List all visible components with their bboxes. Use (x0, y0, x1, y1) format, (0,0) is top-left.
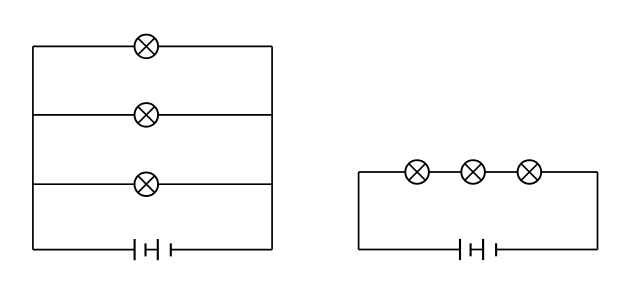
wire right vertical (series circuit) (597, 172, 599, 250)
wire bottom right segment from battery (series circuit) (496, 249, 597, 251)
wire bottom right segment from battery (parallel circuit) (171, 249, 272, 251)
lamp L4 (series circuit, left) (405, 160, 429, 184)
wire top edge (series circuit) (359, 171, 598, 173)
battery B1 (two cells, parallel circuit) (135, 239, 171, 260)
wire lower branch (parallel circuit) (33, 183, 272, 185)
wire left vertical (series circuit) (358, 172, 360, 250)
wire between battery cells (parallel circuit) (146, 249, 158, 251)
wire top branch (parallel circuit) (33, 45, 272, 47)
lamp L3 (lower branch, parallel circuit) (135, 172, 159, 196)
battery B2 (two cells, series circuit) (460, 239, 496, 260)
lamp L5 (series circuit, middle) (461, 160, 485, 184)
wire middle branch (parallel circuit) (33, 114, 272, 116)
wire left vertical (parallel circuit) (32, 46, 34, 249)
lamp L6 (series circuit, right) (518, 160, 542, 184)
wire between battery cells (series circuit) (471, 249, 484, 251)
wire bottom left segment to battery (parallel circuit) (33, 249, 135, 251)
lamp L1 (top branch, parallel circuit) (135, 35, 159, 59)
lamp L2 (middle branch, parallel circuit) (135, 103, 159, 127)
wire right vertical (parallel circuit) (271, 46, 273, 249)
wire bottom left segment to battery (series circuit) (359, 249, 460, 251)
